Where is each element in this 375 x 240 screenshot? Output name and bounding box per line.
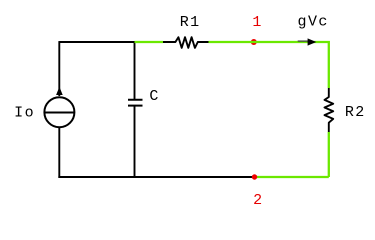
node 1 dot [251,39,257,45]
current source Io chord [44,112,74,114]
resistor R1 [163,37,209,48]
capacitor C top plate [128,99,143,101]
svg-text:C: C [149,88,159,105]
wire left vertical upper [58,41,60,96]
svg-text:gVc: gVc [298,14,329,31]
node 2 dot [252,174,257,179]
wire top black horizontal [59,41,134,43]
wire green right lower [328,132,330,177]
svg-text:Io: Io [14,105,35,122]
current source Io circle [44,97,74,127]
wire capacitor branch lower [134,106,136,177]
current arrow gVc head [308,38,317,45]
svg-text:1: 1 [252,14,262,31]
svg-text:2: 2 [253,192,263,209]
wire green bottom segment [254,176,329,178]
wire capacitor branch upper [134,42,136,99]
wire green top right and corner down [209,42,329,88]
wire bottom black horizontal [58,176,254,178]
capacitor C bottom plate [128,105,143,107]
resistor R2 [325,88,334,132]
svg-text:R2: R2 [345,104,366,121]
svg-text:R1: R1 [180,14,201,31]
wire green top segment [135,41,164,43]
current source Io arrow [56,87,63,95]
current arrow gVc tail [298,40,309,42]
wire left vertical lower [58,127,60,178]
